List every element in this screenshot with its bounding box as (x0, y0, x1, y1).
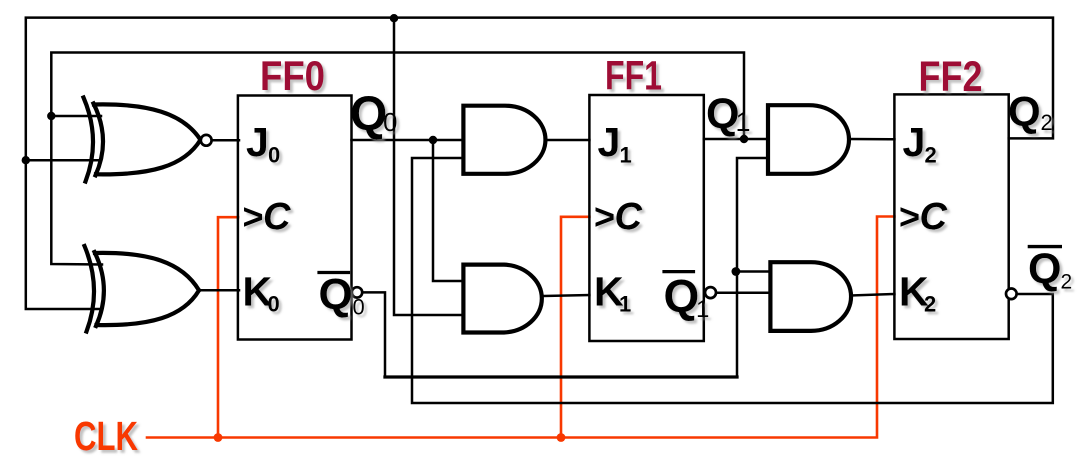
pin label >C of FF2 (899, 196, 948, 238)
XNOR gate G1 output bubble (201, 135, 212, 146)
overbar of Q2-bar (1029, 245, 1060, 248)
junction Q1-XNOR (47, 112, 55, 120)
svg-text:2: 2 (924, 292, 936, 317)
svg-text:1: 1 (736, 107, 751, 137)
svg-text:J: J (246, 119, 269, 165)
svg-text:1: 1 (620, 143, 632, 168)
pin label Q1-bar (664, 270, 710, 323)
svg-text:Q: Q (664, 270, 700, 322)
flip-flop FF0 box (238, 96, 352, 340)
svg-text:Q: Q (350, 88, 387, 141)
svg-text:0: 0 (383, 107, 397, 137)
pin label J2 (903, 119, 937, 168)
svg-text:1: 1 (696, 296, 709, 323)
pin label K0 (243, 269, 280, 317)
wire Q1 feedback net (51, 53, 768, 265)
junction Q2-top (390, 14, 398, 22)
wire AND-D output to K2 (851, 294, 894, 296)
svg-text:0: 0 (353, 295, 365, 320)
pin label >C of FF0 (243, 196, 292, 238)
pin label Q0 (350, 88, 397, 141)
svg-text:2: 2 (1061, 271, 1073, 294)
svg-text:C: C (920, 196, 948, 238)
pin label Q2-bar (1028, 245, 1072, 294)
svg-text:Q: Q (706, 90, 739, 138)
svg-text:FF2: FF2 (919, 53, 983, 101)
pin label Q2 (1008, 88, 1053, 135)
pin label Q1 (706, 90, 751, 138)
svg-text:>: > (243, 196, 264, 237)
svg-text:1: 1 (619, 292, 631, 317)
junction Q0bar-branch (732, 267, 741, 276)
svg-text:FF0: FF0 (260, 52, 325, 99)
pin label K1 (594, 269, 631, 317)
svg-text:0: 0 (268, 143, 280, 168)
svg-text:C: C (615, 196, 643, 238)
overbar of Q0-bar (319, 271, 349, 274)
AND gate B (K1) (463, 265, 541, 333)
svg-text:Q: Q (319, 270, 353, 319)
wire AND-C output to J2 (849, 138, 894, 141)
AND gate D (K2) (770, 262, 851, 331)
AND gate A (J1) (463, 106, 545, 174)
wire Q2-bar net (412, 158, 1053, 403)
bubble Q2-bar (1006, 289, 1017, 300)
XOR gate G2 body (85, 246, 200, 332)
svg-text:C: C (263, 196, 291, 238)
pin label J0 (246, 119, 280, 168)
wire AND-A output to J1 (545, 139, 589, 142)
svg-text:2: 2 (925, 143, 937, 168)
svg-text:2: 2 (1041, 110, 1053, 135)
svg-text:CLK: CLK (74, 413, 138, 459)
svg-text:FF1: FF1 (605, 53, 662, 99)
bubble Q0-bar (352, 287, 362, 297)
junction CLK-FF0 (214, 433, 223, 442)
wire Q0-bar net (362, 158, 770, 377)
junction Q2-XNOR (22, 156, 30, 164)
flip-flop FF1 box (589, 95, 703, 341)
pin label K2 (899, 269, 936, 317)
svg-text:J: J (598, 119, 621, 165)
svg-text:Q: Q (1008, 88, 1041, 135)
wire Q1-bar to AND-D (716, 291, 770, 294)
wire CLK orange net (147, 217, 894, 438)
XNOR gate G1 body (84, 98, 201, 182)
junction Q1-branch (740, 135, 748, 143)
junction CLK-FF1 (557, 433, 566, 442)
bubble Q1-bar (705, 287, 716, 298)
wire Q0-bar bottom run (thick) (385, 375, 737, 378)
svg-text:J: J (903, 119, 926, 165)
svg-text:0: 0 (268, 292, 280, 317)
svg-text:>: > (594, 196, 615, 237)
wire Q0 net (352, 140, 464, 281)
svg-text:>: > (899, 196, 920, 237)
junction Q0-branch (429, 136, 437, 144)
pin label J1 (598, 119, 632, 168)
AND gate C (J2) (768, 105, 849, 174)
flip-flop FF2 box (894, 94, 1008, 339)
pin label Q0-bar (319, 270, 365, 320)
pin label >C of FF1 (594, 196, 643, 238)
wire Q2 feedback net (top loop) (26, 18, 1053, 315)
overbar of Q1-bar (664, 270, 694, 273)
svg-text:Q: Q (1028, 245, 1061, 293)
wire AND-B output to K1 (544, 295, 589, 296)
wire XNOR output to J0 (212, 139, 239, 142)
wire XOR output to K0 (199, 289, 239, 292)
